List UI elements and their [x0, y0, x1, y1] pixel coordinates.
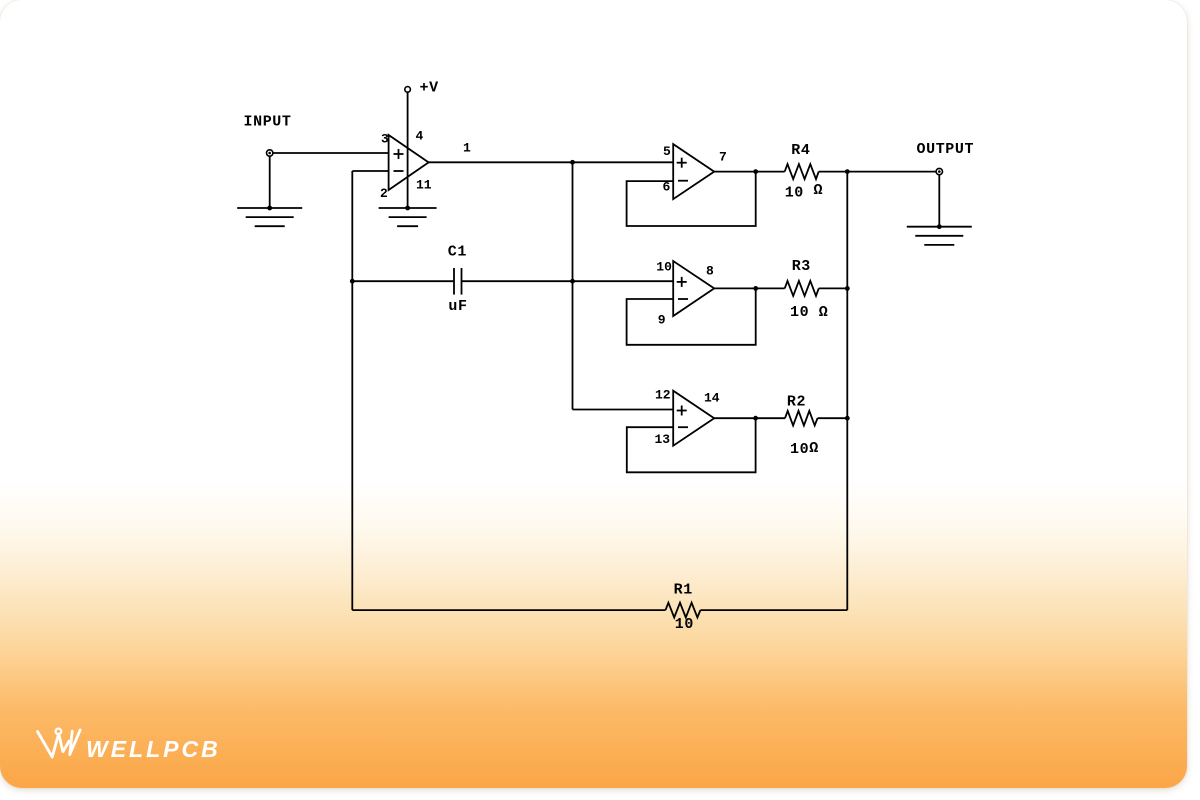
svg-text:10 Ω: 10 Ω [785, 182, 823, 202]
svg-text:14: 14 [704, 391, 720, 406]
svg-text:12: 12 [655, 388, 671, 403]
svg-text:3: 3 [381, 132, 389, 147]
svg-text:10 Ω: 10 Ω [790, 304, 828, 321]
svg-text:8: 8 [706, 264, 714, 279]
svg-text:9: 9 [658, 313, 666, 328]
svg-text:10: 10 [656, 260, 672, 275]
svg-text:OUTPUT: OUTPUT [917, 141, 975, 158]
svg-text:5: 5 [663, 144, 671, 159]
svg-text:10: 10 [675, 616, 694, 633]
svg-text:R3: R3 [792, 258, 811, 275]
svg-text:11: 11 [416, 178, 432, 193]
svg-text:7: 7 [719, 150, 727, 165]
svg-text:C1: C1 [448, 244, 467, 261]
svg-text:uF: uF [448, 298, 467, 315]
svg-text:R1: R1 [674, 582, 693, 599]
svg-text:13: 13 [655, 432, 671, 447]
svg-text:4: 4 [416, 129, 424, 144]
svg-text:6: 6 [663, 180, 671, 195]
svg-text:R2: R2 [787, 394, 806, 411]
svg-text:R4: R4 [791, 142, 810, 159]
svg-text:+V: +V [420, 80, 439, 97]
svg-text:10Ω: 10Ω [790, 440, 819, 458]
svg-text:1: 1 [463, 141, 471, 156]
svg-text:INPUT: INPUT [244, 114, 292, 131]
svg-text:2: 2 [380, 186, 388, 201]
